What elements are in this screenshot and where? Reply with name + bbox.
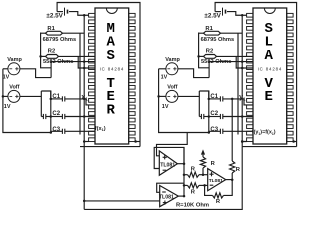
- wire: C1 to state pin (y1 node): [223, 98, 244, 100]
- wire: C3 to pin: [223, 130, 253, 132]
- svg-text:68795 Ohms: 68795 Ohms: [43, 37, 77, 43]
- svg-text:TL081: TL081: [160, 162, 175, 168]
- wire: battery to pin 1 slave: [227, 12, 247, 16]
- node: output pin master: [134, 140, 137, 143]
- wire: Vamp output: [178, 69, 209, 78]
- svg-text:±2.5V: ±2.5V: [204, 12, 221, 19]
- svg-text:Vamp: Vamp: [165, 57, 180, 63]
- wire: C2 to pin: [65, 116, 95, 118]
- node: U3 - input: [203, 184, 206, 187]
- node: bias row junctions: [83, 60, 86, 63]
- wire: R1/R2 common leg: [199, 33, 210, 68]
- wire: U1 output: [177, 163, 184, 165]
- wire: battery to pin 1 master: [69, 12, 89, 16]
- voltage source Voff slave: [166, 90, 178, 102]
- wire: slave loop bottom return: [242, 146, 296, 148]
- node: lower R left: [183, 184, 186, 187]
- wire: source common rail master: [3, 69, 51, 133]
- wire: bottom-right pin stub: [135, 141, 140, 143]
- node: bottom-left pin: [83, 140, 86, 143]
- svg-text:1V: 1V: [162, 104, 169, 110]
- svg-text:R2: R2: [48, 49, 55, 55]
- wire: output tie column: [183, 147, 185, 196]
- voltage source Voff master: [8, 90, 20, 102]
- svg-text:S: S: [106, 48, 114, 64]
- node: supply junction master: [83, 14, 86, 17]
- node: U2 output: [183, 195, 186, 198]
- svg-text:A: A: [264, 48, 273, 64]
- wire: U2 feedback loop: [157, 183, 184, 192]
- node: supply junction slave: [241, 14, 244, 17]
- op-amp U1 TL081: [159, 151, 177, 175]
- node: C2 bus: [208, 115, 211, 118]
- wire: battery riser slave: [215, 3, 297, 147]
- pins right side of SLAVE: [287, 13, 293, 141]
- wire: Voff output: [20, 95, 41, 97]
- battery V1 ±2.5V: [57, 11, 63, 13]
- wire: R1 leads: [199, 32, 204, 34]
- wire: capacitor bus: [50, 91, 52, 133]
- node: bias row junctions: [241, 60, 244, 63]
- resistor R (feedback U3): [224, 180, 233, 196]
- wire: capacitor bus: [208, 91, 210, 133]
- svg-text:R2: R2: [206, 49, 213, 55]
- svg-text:1V: 1V: [4, 104, 11, 110]
- node: U3 output: [231, 178, 234, 181]
- svg-text:C3: C3: [210, 127, 218, 133]
- svg-text:IC 84284: IC 84284: [100, 66, 125, 71]
- IC body MASTER: [95, 8, 129, 144]
- wire: bias rail beside chip slave: [237, 33, 239, 134]
- wire: Voff branch up to C1 node: [41, 91, 51, 99]
- wire: U1 feedback loop: [154, 147, 184, 168]
- wire: R2 branch to lower pin: [78, 56, 95, 68]
- wire: R2 leads: [41, 55, 46, 57]
- wire: Vamp riser to chip row: [51, 62, 95, 78]
- wire: R1/R2 common leg: [41, 33, 52, 68]
- wire: bottom-left pin stub: [242, 141, 246, 143]
- wire: Voff branch up to C1 node: [199, 91, 209, 99]
- voltage source Vamp master: [8, 63, 20, 75]
- pins right side of MASTER: [129, 13, 135, 141]
- node: C2 row: [241, 115, 244, 118]
- svg-text:E: E: [264, 89, 272, 105]
- svg-text:±2.5V: ±2.5V: [46, 12, 63, 19]
- node: x1: [83, 98, 86, 101]
- wire: U3 output: [226, 179, 233, 181]
- voltage source Vamp slave: [166, 63, 178, 75]
- wire: chip common rail master: [83, 15, 85, 146]
- svg-text:TL081: TL081: [209, 178, 223, 184]
- wire: op1 input jog to slave bus: [157, 133, 188, 156]
- node: bottom-left pin: [241, 140, 244, 143]
- wire: U2 output: [178, 195, 184, 197]
- wire: Vamp riser to chip row: [209, 62, 253, 78]
- node: C2 bus: [50, 115, 53, 118]
- wire: source common rail slave: [159, 69, 209, 133]
- wire: bias rail beside chip master: [79, 33, 81, 134]
- node: R1-R2 tie: [197, 55, 200, 58]
- wire: bottom-left pin stub: [84, 141, 88, 143]
- node: output pin slave: [292, 140, 295, 143]
- node: C1 bus: [208, 98, 211, 101]
- wire: bottom return rail: [84, 147, 242, 210]
- notch of MASTER package: [106, 8, 117, 14]
- resistor R (lower input): [184, 184, 188, 186]
- battery V2 ±2.5V: [215, 11, 221, 13]
- label SLAVE: [264, 21, 273, 105]
- wire: C2 to pin: [223, 116, 253, 118]
- svg-text:f(x1): f(x1): [95, 126, 106, 132]
- label MASTER: [106, 21, 115, 118]
- node: U1 output: [183, 162, 186, 165]
- svg-text:1V: 1V: [3, 75, 10, 81]
- resistor R (from slave y1): [231, 99, 233, 161]
- svg-text:R=10K Ohm: R=10K Ohm: [176, 203, 209, 209]
- wire: bottom-right pin stub: [293, 141, 297, 143]
- node: slave rail pin: [241, 140, 244, 143]
- node: Voff on rail: [2, 95, 5, 98]
- wire: R1 leads: [41, 32, 46, 34]
- node: C3 bus / rail: [208, 131, 211, 134]
- node: C2 row: [83, 115, 86, 118]
- node: C3 bus / rail: [50, 131, 53, 134]
- node: y1: [231, 98, 234, 101]
- svg-text:TL081: TL081: [159, 194, 174, 200]
- node: rail/op2 junction: [83, 200, 86, 203]
- wire: Voff output: [178, 95, 199, 97]
- wire: battery riser master: [57, 3, 140, 147]
- wire: Voff leg through coupling cap: [198, 91, 200, 117]
- node: C1 bus: [50, 98, 53, 101]
- svg-text:C3: C3: [52, 127, 60, 133]
- wire: C3 to pin: [65, 130, 95, 132]
- node: Voff on rail: [157, 95, 160, 98]
- supply arrow: [201, 149, 205, 154]
- svg-text:R: R: [106, 103, 115, 119]
- pins left side of MASTER: [89, 13, 95, 141]
- node: op3 + input: [202, 173, 205, 176]
- wire: R2 leads: [199, 55, 204, 57]
- op-amp U3 TL081: [208, 169, 226, 191]
- capacitor (coupling) master: [41, 116, 43, 118]
- wire: chip common rail slave: [241, 15, 243, 146]
- capacitor (coupling) slave: [199, 116, 201, 118]
- wire: slave bottom-left pin to rail: [242, 141, 246, 143]
- wire: C1 to state pin (x1 node): [65, 98, 86, 100]
- wire: R2 branch to lower pin: [236, 56, 253, 68]
- resistor R (pull to supply): [200, 157, 205, 168]
- wire: master rail to bottom: [83, 147, 85, 210]
- wire: master loop bottom return: [80, 146, 140, 148]
- op-amp U2 TL081: [160, 186, 179, 207]
- svg-text:Voff: Voff: [9, 85, 19, 91]
- IC body SLAVE: [253, 8, 287, 144]
- pins left side of SLAVE: [247, 13, 253, 141]
- node: R1-R2 tie: [39, 55, 42, 58]
- svg-text:IC 84284: IC 84284: [258, 66, 283, 71]
- resistor R (upper input): [184, 174, 188, 176]
- node: upper R left: [183, 173, 186, 176]
- notch of SLAVE package: [264, 8, 275, 14]
- wire: Voff leg through coupling cap: [40, 91, 42, 117]
- svg-text:1V: 1V: [161, 75, 168, 81]
- svg-text:68795 Ohms: 68795 Ohms: [201, 37, 235, 43]
- wire: Vamp output: [20, 69, 51, 78]
- wire: op2 non-inverting long wire: [84, 200, 163, 202]
- svg-text:Vamp: Vamp: [7, 57, 22, 63]
- svg-text:Voff: Voff: [167, 85, 177, 91]
